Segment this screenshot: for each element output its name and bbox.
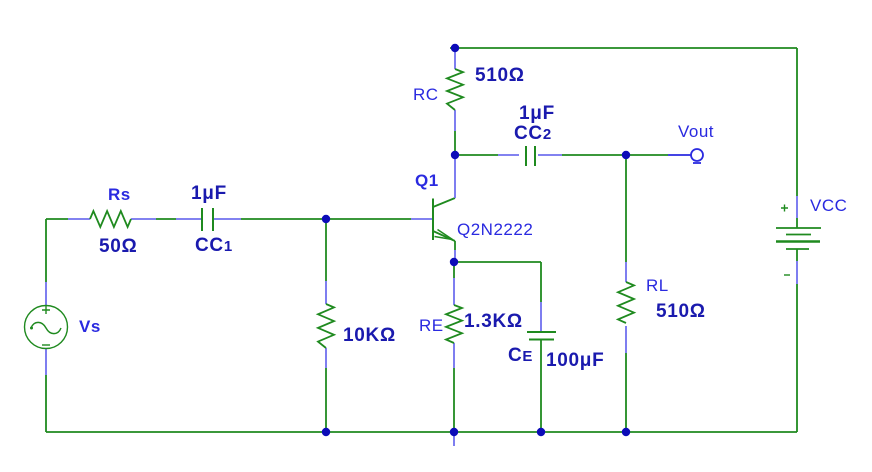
wire: CE branch [540, 262, 542, 432]
svg-text:RC: RC [413, 85, 439, 104]
terminal Vout [691, 149, 703, 163]
svg-text:1μF: 1μF [191, 183, 227, 204]
capacitor CE [527, 332, 556, 340]
transistor Q1 base bar [432, 199, 434, 241]
svg-text:510Ω: 510Ω [475, 65, 525, 86]
node dot ground CE [537, 428, 545, 436]
wire: bottom ground rail [46, 431, 797, 433]
wire: emitter node to CE [454, 261, 541, 263]
wire: RE branch [453, 262, 455, 446]
battery VCC [776, 205, 821, 276]
svg-text:Vout: Vout [678, 122, 714, 141]
capacitor CC2 [526, 146, 535, 166]
wire: signal wire y=219 segments [46, 218, 433, 220]
capacitor CC1 [202, 208, 213, 231]
resistor RC [447, 69, 463, 110]
svg-text:VCC: VCC [810, 196, 847, 215]
svg-text:50Ω: 50Ω [99, 236, 137, 257]
svg-text:Q2N2222: Q2N2222 [457, 220, 533, 239]
node dot top rail RC [451, 44, 459, 52]
node dot emitter [450, 258, 458, 266]
wire: VCC right branch [796, 48, 798, 432]
resistor Rs [90, 211, 131, 227]
svg-text:1μF: 1μF [519, 103, 555, 124]
node dot ground RL [622, 428, 630, 436]
wire: RL branch [625, 155, 627, 432]
wire: 10K branch vertical [325, 219, 327, 432]
wire: signal rail left vertical (Vs top lead) [45, 219, 47, 306]
transistor Q1 emitter lead with arrow [433, 230, 455, 261]
svg-text:RE: RE [419, 316, 444, 335]
svg-text:RL: RL [646, 276, 669, 295]
svg-text:510Ω: 510Ω [656, 301, 706, 322]
wire: RC branch [454, 51, 456, 155]
node dot RL top [622, 151, 630, 159]
wire: top VCC rail [450, 47, 797, 49]
source Vs [25, 306, 68, 349]
node dot base junction [322, 215, 330, 223]
node dot ground 10K [322, 428, 330, 436]
svg-text:Q1: Q1 [415, 171, 439, 190]
node dot collector [451, 151, 459, 159]
svg-text:10KΩ: 10KΩ [343, 325, 396, 346]
svg-text:100μF: 100μF [546, 350, 604, 371]
svg-text:CC2: CC2 [514, 123, 552, 144]
svg-text:Rs: Rs [108, 185, 131, 204]
resistor R 10K [318, 304, 334, 348]
svg-text:Vs: Vs [79, 317, 101, 336]
node dot ground RE [450, 428, 458, 436]
svg-text:CE: CE [508, 345, 533, 366]
resistor RL [618, 282, 634, 323]
resistor RE [446, 305, 462, 343]
transistor Q1 collector lead [433, 158, 455, 207]
wire: collector node to Vout [455, 154, 691, 156]
svg-text:1.3KΩ: 1.3KΩ [464, 311, 523, 332]
wire: bottom lead of Vs [45, 348, 47, 432]
svg-text:CC1: CC1 [195, 235, 233, 256]
